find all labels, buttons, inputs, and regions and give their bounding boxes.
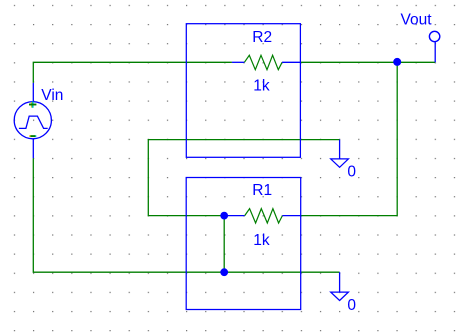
resistor R2 left pin — [232, 61, 245, 63]
wire: R2 bottom feedback run from ground stub left, down, right to R1 left node — [148, 140, 339, 216]
ground symbol 0 upper: pin — [339, 140, 341, 159]
wire: between R1 left node and bottom rail — [223, 216, 225, 273]
resistor R2 right pin — [282, 61, 300, 63]
svg-text:1k: 1k — [253, 232, 270, 249]
ground symbol 0 upper: triangle — [331, 159, 349, 167]
voltage source Vin circle body — [14, 102, 51, 139]
box around R2 — [186, 24, 300, 158]
svg-text:0: 0 — [347, 297, 356, 314]
resistor R1 zigzag body — [245, 209, 283, 223]
ground symbol 0 lower: pin — [339, 272, 341, 292]
port Vout circle — [429, 31, 439, 41]
voltage source Vin minus mark — [29, 135, 36, 137]
port Vout pin — [434, 42, 436, 63]
resistor R1 right pin — [282, 215, 300, 217]
wire: Vin minus pin down, bottom rail right to ground stub — [33, 158, 339, 272]
resistor R2 zigzag body — [244, 55, 282, 69]
resistor R1 left pin — [228, 215, 245, 217]
junction node at Vout rail — [393, 58, 401, 66]
junction node at R1 left lower — [220, 268, 228, 276]
wire: right vertical from Vout node down and left to R1 right pin — [301, 62, 398, 215]
voltage source Vin top pin — [32, 83, 34, 102]
svg-text:R1: R1 — [252, 182, 272, 199]
voltage source Vin plus mark — [29, 101, 36, 107]
ground symbol 0 lower: triangle — [331, 292, 349, 300]
voltage source Vin bottom pin — [32, 139, 34, 159]
wire: R2 right side to Vout corner — [300, 61, 435, 63]
svg-text:1k: 1k — [253, 77, 270, 94]
voltage source Vin pulse waveform — [19, 116, 48, 128]
svg-text:Vin: Vin — [41, 87, 63, 104]
svg-text:0: 0 — [347, 163, 356, 180]
wire: Vin plus pin up to top rail toward R2 — [33, 62, 232, 83]
svg-text:Vout: Vout — [401, 11, 433, 28]
svg-text:R2: R2 — [252, 29, 272, 46]
box around R1 — [186, 178, 301, 310]
junction node at R1 left upper — [220, 212, 228, 220]
